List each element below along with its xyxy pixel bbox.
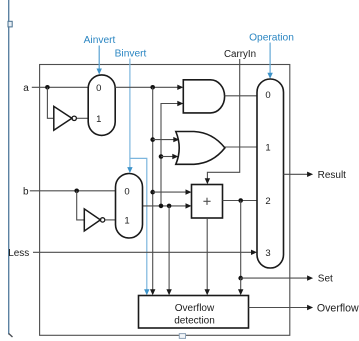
label + of adder	[203, 198, 210, 205]
arrowhead into OR input 2	[172, 154, 178, 159]
arrowhead Less into result mux port 3	[251, 250, 257, 255]
node a to OR junction	[150, 137, 155, 142]
node b junction	[74, 189, 79, 194]
arrowhead Set output	[307, 275, 313, 280]
arrowhead Binvert branch into overflow detection	[144, 289, 149, 295]
AND gate	[183, 80, 224, 113]
wire adder result to mux port 2	[223, 200, 258, 202]
arrowhead Ainvert into mux A select	[97, 69, 102, 75]
svg-text:a: a	[23, 83, 29, 94]
wire Binvert branch to overflow detection	[130, 158, 147, 290]
svg-text:0: 0	[265, 90, 270, 101]
wire CarryIn to adder	[207, 59, 239, 179]
wire a to adder input 1	[153, 191, 188, 193]
wire adder result down to Set	[240, 201, 242, 279]
wire AND output to result mux port 0	[225, 95, 257, 97]
wire OR output to result mux port 1	[225, 146, 257, 148]
result mux (4:1 multiplexer)	[257, 79, 284, 268]
arrowhead into AND input 1	[177, 85, 183, 90]
wire b to inverter B	[77, 191, 85, 220]
arrowhead Set branch into overflow detection	[238, 289, 243, 295]
svg-text:Binvert: Binvert	[115, 48, 147, 59]
annotation line left margin	[8, 0, 13, 337]
node b to OR junction	[159, 154, 164, 159]
wire b to OR gate input 2	[161, 156, 174, 158]
inverter B (NOT gate)	[84, 209, 105, 231]
arrowhead Operation into result mux select	[267, 73, 272, 79]
node a bus junction	[150, 85, 155, 90]
wire b bus vertical	[161, 104, 183, 206]
node a junction	[45, 85, 50, 90]
svg-text:Result: Result	[318, 170, 347, 181]
wire Set branch to overflow detection	[240, 278, 242, 291]
arrowhead adder carry into overflow detection	[205, 289, 210, 295]
mux A (2:1 multiplexer for a)	[88, 75, 115, 135]
arrowhead into adder input 2	[186, 203, 192, 208]
wire inverter A to mux A port 1	[77, 117, 88, 119]
wire adder carry out to overflow detection	[206, 218, 208, 290]
arrowhead into AND input 2	[177, 101, 183, 106]
svg-text:0: 0	[96, 83, 101, 94]
arrowhead Overflow output	[307, 305, 313, 310]
node Set junction	[238, 276, 243, 281]
wire Less to mux port 3	[33, 251, 253, 253]
arrowhead a bus into overflow detection	[150, 289, 155, 295]
node b overflow branch junction	[167, 204, 172, 209]
svg-text:CarryIn: CarryIn	[224, 49, 256, 60]
wire a to OR gate input 1	[153, 139, 175, 141]
arrowhead into adder input 1	[186, 189, 192, 194]
arrowhead Binvert into mux B select	[127, 167, 132, 173]
wire Binvert control vertical	[129, 59, 131, 169]
svg-text:detection: detection	[174, 316, 215, 327]
svg-text:3: 3	[265, 248, 270, 259]
wire Operation control	[269, 43, 271, 74]
arrowhead b branch into overflow detection	[166, 289, 171, 295]
wire a input to mux A port 0	[32, 86, 88, 88]
adder U1	[192, 185, 223, 219]
svg-text:1: 1	[124, 215, 129, 226]
inverter A (NOT gate)	[54, 106, 77, 130]
wire a bus vertical to overflow detection	[152, 87, 154, 290]
outer ALU box	[40, 65, 290, 336]
wire Result output	[284, 173, 309, 175]
OR gate	[176, 132, 225, 165]
node adder result junction	[238, 198, 243, 203]
svg-text:Ainvert: Ainvert	[84, 35, 116, 46]
wire mux A output to AND gate input 1	[115, 86, 179, 88]
wire a to inverter A	[47, 87, 53, 118]
node a to adder junction	[150, 190, 155, 195]
node b bus junction	[159, 204, 164, 209]
wire b mux output to adder input 2	[143, 205, 188, 207]
wire Overflow output	[249, 307, 309, 309]
overflow detection box	[139, 296, 249, 329]
arrowhead into OR input 1	[173, 137, 179, 142]
wire b branch to overflow detection	[168, 206, 170, 291]
arrowhead Result output	[307, 172, 313, 177]
svg-text:1: 1	[265, 143, 270, 154]
wire b input to mux B port 0	[30, 190, 116, 192]
wire Ainvert control	[98, 46, 100, 70]
arrowhead CarryIn into adder	[205, 178, 210, 184]
annotation handle bottom	[179, 334, 185, 339]
wire Set output	[241, 277, 309, 279]
svg-text:2: 2	[265, 196, 270, 207]
svg-text:Overflow: Overflow	[317, 302, 359, 314]
wire inverter B to mux B port 1	[105, 219, 115, 221]
svg-text:b: b	[23, 186, 29, 197]
svg-text:Set: Set	[318, 274, 333, 285]
svg-text:Operation: Operation	[249, 33, 294, 44]
mux B (2:1 multiplexer for b)	[116, 174, 143, 239]
svg-text:1: 1	[96, 114, 101, 125]
svg-text:0: 0	[124, 186, 129, 197]
svg-text:Less: Less	[8, 248, 29, 259]
svg-text:Overflow: Overflow	[175, 303, 215, 314]
